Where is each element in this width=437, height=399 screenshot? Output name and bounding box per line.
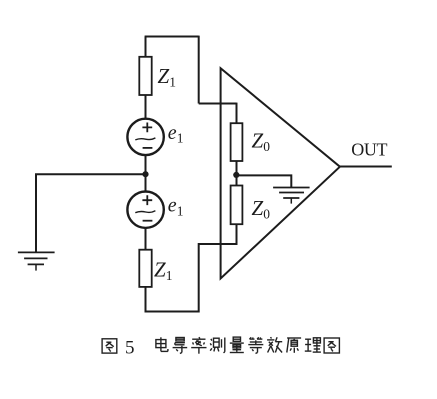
caption: 图 5 电导率测量等效原理图 (102, 337, 339, 359)
wire: top rail horizontal (145, 36, 199, 38)
svg-text:OUT: OUT (351, 140, 387, 160)
wire: top rail down to + input level (198, 36, 200, 104)
wire: output (340, 166, 392, 168)
svg-text:5: 5 (125, 338, 135, 359)
wire: between Z0 resistors (236, 161, 238, 186)
source e1 (top) (127, 119, 163, 155)
ground (left) (18, 252, 55, 270)
wire: into op-amp non-inverting input (199, 103, 237, 105)
resistor Z1 (top) (139, 57, 151, 95)
source e1 (bottom) (127, 192, 163, 228)
wire: Z0 midpoint to internal ground (236, 175, 291, 187)
wire: centre node to left ground (36, 174, 146, 252)
ground (internal) (273, 188, 310, 204)
wire: bottom run to op-amp inverting input (146, 224, 237, 311)
svg-text:e1: e1 (168, 195, 184, 219)
svg-text:Z0: Z0 (252, 196, 271, 222)
svg-text:Z0: Z0 (252, 129, 271, 155)
wire: + input to Z0 top (236, 103, 238, 124)
resistor Z1 (bottom) (139, 250, 151, 287)
svg-text:Z1: Z1 (158, 64, 176, 90)
wire: e1 top to centre node (145, 155, 147, 174)
node: Z0 midpoint dot (233, 172, 239, 178)
wire: Z1 top to e1 top (145, 95, 147, 118)
op-amp U1 triangle (221, 68, 340, 278)
node: centre junction dot (142, 171, 148, 177)
svg-text:Z1: Z1 (154, 257, 172, 283)
resistor Z0 (top) (231, 123, 243, 161)
svg-text:e1: e1 (168, 122, 184, 146)
wire: Z1 top lead to top rail (145, 37, 147, 57)
resistor Z0 (bottom) (231, 186, 243, 225)
wire: centre node to e1 bottom (145, 174, 147, 191)
wire: e1 bottom to Z1 bottom (145, 228, 147, 250)
